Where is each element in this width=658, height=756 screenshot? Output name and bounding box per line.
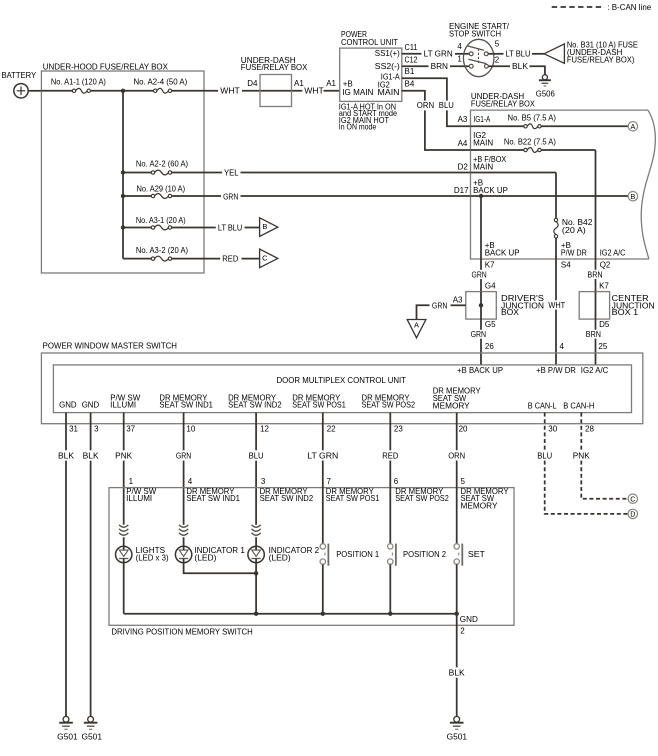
ground G501 second: [88, 716, 94, 722]
svg-text:WHT: WHT: [220, 87, 240, 96]
svg-text:SEAT SW IND1: SEAT SW IND1: [159, 401, 213, 410]
svg-text:BLU: BLU: [249, 451, 264, 460]
svg-text:PNK: PNK: [115, 451, 133, 460]
wire pin 2 BLK to ground: [456, 614, 458, 668]
wire pin 31 BLK to ground: [65, 413, 67, 451]
svg-text:A3: A3: [453, 295, 463, 304]
svg-text:30: 30: [548, 425, 557, 434]
svg-text:5: 5: [461, 477, 466, 486]
svg-text:K7: K7: [485, 261, 495, 270]
svg-text:MAIN: MAIN: [378, 88, 400, 97]
wire +B F/BOX vertical to fuse B42: [555, 173, 557, 219]
coil resistor P/W SW ILLUMI: [119, 525, 128, 527]
svg-text:POSITION 2: POSITION 2: [403, 550, 447, 559]
svg-text:GRN: GRN: [176, 451, 192, 460]
svg-text:MEMORY: MEMORY: [461, 502, 499, 511]
power window master switch outer box: [41, 353, 642, 424]
svg-text:D2: D2: [458, 163, 469, 172]
svg-text:GND: GND: [460, 615, 478, 624]
wire lights to ground bus: [123, 537, 125, 546]
coil resistor seat sw ind1: [179, 525, 188, 527]
wire C12 SS2 BRN: [402, 65, 429, 67]
svg-text:2: 2: [460, 627, 465, 636]
wire GRN A29 to D17: [204, 195, 221, 197]
svg-text:G4: G4: [485, 282, 496, 291]
coil resistor seat sw ind2: [252, 525, 261, 527]
connector triangle No. B31 fuse: [544, 44, 564, 64]
switch POSITION 1: [322, 461, 324, 544]
svg-text:ORN: ORN: [448, 451, 465, 460]
svg-text:D4: D4: [247, 79, 258, 88]
svg-text:LT BLU: LT BLU: [218, 224, 242, 233]
wire WHT to power control unit: [324, 90, 340, 92]
fuse No. B42 (20 A) vertical: [554, 222, 558, 235]
svg-text:B: B: [631, 192, 636, 201]
svg-text:STOP SWITCH: STOP SWITCH: [449, 30, 501, 39]
dashed wire pin 30 BLU B-CAN to connector D: [544, 413, 546, 451]
svg-text:GRN: GRN: [223, 192, 238, 201]
svg-text:+B P/W DR: +B P/W DR: [536, 366, 576, 375]
svg-text:MAIN: MAIN: [473, 139, 493, 148]
connector circle D: [628, 509, 637, 518]
svg-text:B CAN-L: B CAN-L: [528, 401, 557, 410]
svg-text:Q2: Q2: [600, 261, 611, 270]
svg-text:22: 22: [327, 425, 336, 434]
svg-text:SEAT SW IND1: SEAT SW IND1: [186, 494, 240, 503]
connector triangle B: [260, 218, 278, 237]
center junction box 1: [579, 292, 609, 320]
svg-text:A3: A3: [458, 115, 468, 124]
svg-text:C11: C11: [405, 43, 418, 52]
svg-text:No. B22 (7.5 A): No. B22 (7.5 A): [504, 137, 556, 146]
junction node D17 back-up: [479, 194, 483, 198]
switch contact bottom row: [469, 64, 473, 68]
wire +B BACK UP vertical: [480, 196, 482, 259]
svg-text:SEAT SW POS2: SEAT SW POS2: [362, 401, 416, 410]
fuse No. A3-2 (20 A): [123, 258, 151, 260]
svg-text:ILLUMI: ILLUMI: [110, 401, 136, 410]
svg-text:S4: S4: [561, 261, 571, 270]
svg-text:FUSE/RELAY BOX: FUSE/RELAY BOX: [241, 63, 308, 72]
svg-text:31: 31: [69, 425, 78, 434]
switch contact top row: [469, 52, 473, 56]
svg-text:BRN: BRN: [587, 270, 602, 279]
svg-text:28: 28: [585, 425, 594, 434]
svg-text:C12: C12: [405, 55, 418, 64]
wire IG2 vertical to Q2: [595, 150, 597, 259]
svg-text:IG MAIN: IG MAIN: [342, 88, 373, 97]
connector triangle A: [407, 320, 426, 338]
svg-text:K7: K7: [599, 282, 609, 291]
svg-text:LT BLU: LT BLU: [506, 50, 531, 59]
svg-text:No. B5 (7.5 A): No. B5 (7.5 A): [508, 114, 557, 123]
junction node A2-2: [121, 170, 125, 174]
svg-text:RED: RED: [382, 451, 398, 460]
svg-text:DOOR MULTIPLEX CONTROL UNIT: DOOR MULTIPLEX CONTROL UNIT: [277, 376, 407, 385]
wire BLK to ground G506: [488, 65, 510, 67]
svg-text:RED: RED: [222, 255, 238, 264]
svg-text:GRN: GRN: [432, 301, 448, 310]
svg-text:LT GRN: LT GRN: [424, 50, 453, 59]
svg-text:BLK: BLK: [512, 62, 529, 71]
svg-text:BOX 1: BOX 1: [612, 308, 639, 317]
svg-text:SEAT SW POS1: SEAT SW POS1: [292, 401, 346, 410]
svg-text:GRN: GRN: [471, 330, 487, 339]
under-hood box internal feed wire: [122, 91, 124, 259]
wire S4 WHT to master switch pin 4: [555, 259, 557, 300]
svg-text:4: 4: [560, 342, 565, 351]
svg-text:G5: G5: [485, 320, 496, 329]
wire main +B bus: [41, 90, 72, 92]
svg-text:C: C: [630, 494, 635, 503]
under-hood fuse/relay box: [41, 71, 204, 273]
svg-text:POSITION 1: POSITION 1: [336, 550, 380, 559]
wire battery to under-hood box: [28, 90, 41, 92]
svg-text:3: 3: [94, 425, 99, 434]
svg-text:D5: D5: [599, 320, 610, 329]
svg-text:BLU: BLU: [537, 451, 552, 460]
dashed wire pin 28 PNK B-CAN to connector C: [580, 413, 582, 451]
ground bus wire: [124, 613, 457, 615]
svg-text:No. A3-2 (20 A): No. A3-2 (20 A): [136, 246, 189, 255]
svg-text:G501: G501: [447, 732, 468, 741]
svg-text:POWER WINDOW MASTER SWITCH: POWER WINDOW MASTER SWITCH: [43, 342, 178, 351]
switch mechanical link dashed: [478, 49, 480, 65]
connector circle C: [628, 494, 637, 503]
svg-text:G501: G501: [57, 732, 78, 741]
wire pin 12 BLU: [255, 413, 257, 451]
wire through driver's junction box: [480, 292, 482, 320]
lamp LED indicator 2: [248, 546, 264, 562]
svg-text:MEMORY: MEMORY: [433, 401, 471, 410]
fuse No. A29 (10 A): [123, 195, 151, 197]
wire pin 23 RED: [389, 413, 391, 451]
wire WHT to under-dash pass-through: [242, 90, 302, 92]
svg-text:37: 37: [126, 425, 135, 434]
battery: [14, 84, 28, 98]
connector circle B right: [628, 192, 637, 201]
fuse No. A2-2 (60 A): [123, 172, 151, 174]
svg-text:: B-CAN line: : B-CAN line: [607, 3, 651, 12]
svg-text:LT GRN: LT GRN: [307, 451, 338, 460]
svg-text:GND: GND: [82, 401, 100, 410]
svg-text:BLK: BLK: [449, 669, 466, 678]
svg-text:3: 3: [261, 477, 266, 486]
svg-text:7: 7: [327, 477, 332, 486]
junction node A29: [121, 194, 125, 198]
junction node main bus: [121, 89, 125, 93]
ground G501 right: [454, 716, 460, 722]
svg-text:ILLUMI: ILLUMI: [126, 494, 152, 503]
junction node bus ind2: [254, 612, 258, 616]
wire K7 GRN to driver's junction box: [480, 259, 482, 270]
junction node indicator link: [254, 571, 258, 575]
svg-text:6: 6: [394, 477, 399, 486]
switch SET: [456, 461, 458, 544]
under-dash fuse/relay box main: [471, 110, 649, 259]
wire C11 SS1 LT GRN: [402, 53, 422, 55]
svg-text:DRIVING POSITION MEMORY SWITCH: DRIVING POSITION MEMORY SWITCH: [111, 628, 253, 637]
svg-text:A: A: [414, 320, 419, 329]
engine start/stop switch: [463, 39, 494, 76]
svg-text:In ON mode: In ON mode: [339, 123, 377, 132]
wire D5 BRN to master switch pin 25: [595, 319, 597, 330]
connector triangle C: [260, 249, 278, 268]
legend: B-CAN line dashed sample: [552, 6, 605, 8]
svg-text:20: 20: [459, 425, 468, 434]
svg-text:FUSE/RELAY BOX: FUSE/RELAY BOX: [471, 99, 536, 108]
junction node bus set GND: [455, 612, 459, 616]
svg-text:SS1(+): SS1(+): [375, 49, 400, 58]
svg-text:BACK UP: BACK UP: [485, 248, 520, 257]
svg-text:G501: G501: [82, 732, 103, 741]
svg-text:ORN: ORN: [417, 101, 435, 110]
svg-text:25: 25: [598, 342, 607, 351]
svg-text:WHT: WHT: [304, 87, 324, 96]
svg-text:SS2(-): SS2(-): [375, 62, 400, 71]
svg-text:WHT: WHT: [548, 301, 565, 310]
svg-text:IG1-A: IG1-A: [473, 115, 491, 124]
wire pin 22 LT GRN: [322, 413, 324, 451]
svg-text:GND: GND: [59, 401, 77, 410]
svg-text:(LED x 3): (LED x 3): [136, 554, 169, 563]
svg-text:10: 10: [186, 425, 195, 434]
svg-text:G506: G506: [536, 89, 556, 98]
svg-text:A: A: [631, 122, 636, 131]
svg-text:YEL: YEL: [224, 169, 239, 178]
svg-text:BLK: BLK: [83, 451, 100, 460]
svg-text:A1: A1: [294, 79, 304, 88]
svg-text:(20 A): (20 A): [562, 226, 586, 235]
svg-text:B CAN-H: B CAN-H: [563, 401, 594, 410]
svg-text:BOX: BOX: [501, 308, 520, 317]
junction node bus position 2: [388, 612, 392, 616]
svg-text:1: 1: [457, 54, 462, 63]
svg-text:BLU: BLU: [439, 101, 454, 110]
svg-text:SEAT SW IND2: SEAT SW IND2: [260, 494, 314, 503]
under-dash fuse/relay box D4-A1 pass-through: [260, 75, 292, 107]
svg-text:+B BACK UP: +B BACK UP: [457, 366, 503, 375]
wire indicator 2 to ground bus: [255, 537, 257, 546]
wire pin 37 PNK: [123, 413, 125, 451]
power control unit: [340, 48, 402, 101]
svg-text:A4: A4: [458, 139, 468, 148]
wire B1 IG1-A BLU: [402, 78, 447, 100]
svg-text:SEAT SW IND2: SEAT SW IND2: [228, 401, 282, 410]
svg-text:BATTERY: BATTERY: [2, 71, 37, 80]
wire B4 IG2 MAIN ORN: [402, 91, 425, 101]
svg-text:No. A2-2 (60 A): No. A2-2 (60 A): [136, 160, 189, 169]
svg-text:2: 2: [495, 56, 500, 65]
svg-text:FUSE/RELAY BOX): FUSE/RELAY BOX): [567, 55, 635, 64]
svg-text:PNK: PNK: [573, 451, 591, 460]
wire LT BLU to fuse B31 connector: [488, 53, 503, 55]
svg-text:SET: SET: [468, 550, 485, 559]
svg-text:23: 23: [394, 425, 403, 434]
wire Q2 BRN to center junction box: [595, 259, 597, 270]
svg-text:CONTROL UNIT: CONTROL UNIT: [341, 38, 398, 47]
svg-text:GRN: GRN: [472, 270, 487, 279]
lamp LED indicator 1: [175, 546, 191, 562]
lamp LED lights: [116, 546, 132, 562]
svg-text:BACK UP: BACK UP: [473, 186, 508, 195]
ground G506: [542, 75, 547, 80]
svg-text:BRN: BRN: [586, 330, 601, 339]
svg-text:4: 4: [457, 42, 462, 51]
switch POSITION 2: [389, 461, 391, 544]
fuse No. A2-4 (50 A): [157, 88, 169, 93]
wire pin 10 GRN: [183, 413, 185, 451]
junction node bus position 1: [321, 612, 325, 616]
svg-text:4: 4: [188, 477, 193, 486]
fuse No. A3-1 (20 A): [123, 227, 151, 229]
driver's junction box: [466, 292, 497, 320]
svg-text:IG2 A/C: IG2 A/C: [600, 248, 626, 257]
svg-text:B1: B1: [405, 67, 415, 76]
wire G5 GRN to master switch pin 26: [480, 319, 482, 330]
svg-text:No. A3-1 (20 A): No. A3-1 (20 A): [136, 216, 186, 225]
svg-text:26: 26: [485, 342, 494, 351]
svg-text:(LED): (LED): [194, 554, 216, 563]
svg-text:1: 1: [129, 477, 134, 486]
svg-text:(LED): (LED): [269, 554, 291, 563]
svg-text:A1: A1: [326, 79, 336, 88]
wire YEL A2-2 to D2: [204, 172, 222, 174]
svg-text:No. A29 (10 A): No. A29 (10 A): [137, 185, 186, 194]
svg-text:5: 5: [495, 40, 500, 49]
driving position memory switch box: [109, 488, 514, 626]
svg-text:D: D: [630, 510, 635, 519]
wire RED to connector C: [204, 258, 220, 260]
junction node A3-1: [121, 225, 125, 229]
svg-text:SEAT SW POS1: SEAT SW POS1: [326, 494, 380, 503]
junction node driver's box: [479, 303, 483, 307]
svg-text:IG2 A/C: IG2 A/C: [581, 366, 609, 375]
svg-text:UNDER-HOOD FUSE/RELAY BOX: UNDER-HOOD FUSE/RELAY BOX: [43, 62, 169, 71]
wire through center junction box: [595, 292, 597, 320]
svg-text:12: 12: [260, 425, 269, 434]
svg-text:No. A1-1 (120 A): No. A1-1 (120 A): [51, 77, 106, 86]
door multiplex control unit inner box: [53, 365, 631, 413]
svg-text:P/W DR: P/W DR: [561, 248, 587, 257]
svg-text:B: B: [262, 222, 267, 231]
svg-text:SEAT SW POS2: SEAT SW POS2: [395, 494, 449, 503]
wire pin 20 ORN: [456, 413, 458, 451]
wire LT BLU to connector B: [204, 227, 216, 229]
svg-text:D17: D17: [454, 186, 469, 195]
svg-text:BRN: BRN: [431, 62, 449, 71]
wire pin 3 BLK to ground: [90, 413, 92, 451]
svg-text:MAIN: MAIN: [473, 163, 493, 172]
svg-text:BLK: BLK: [58, 451, 75, 460]
svg-text:No. A2-4 (50 A): No. A2-4 (50 A): [134, 77, 188, 86]
wire indicator 1 link: [183, 537, 185, 546]
svg-text:C: C: [262, 254, 268, 263]
ground G501 left: [63, 716, 69, 722]
connector circle A right: [628, 122, 637, 131]
fuse No. A1-1 (120 A): [76, 88, 88, 93]
svg-text:B4: B4: [405, 79, 415, 88]
